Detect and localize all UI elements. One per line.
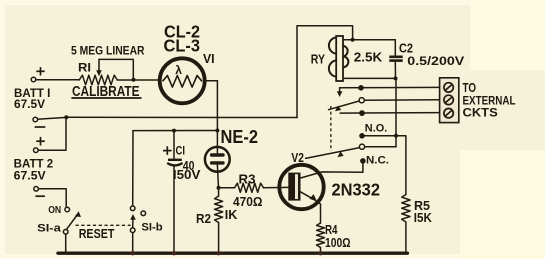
svg-text:ON: ON [48, 204, 61, 216]
svg-text:NE-2: NE-2 [221, 127, 259, 147]
svg-text:VI: VI [203, 52, 215, 66]
svg-text:CL-3: CL-3 [164, 36, 201, 56]
svg-text:SI-b: SI-b [141, 222, 162, 234]
svg-text:67.5V: 67.5V [14, 99, 45, 111]
svg-text:λ: λ [175, 63, 182, 77]
svg-text:RESET: RESET [79, 226, 115, 241]
svg-text:5 MEG LINEAR: 5 MEG LINEAR [71, 45, 145, 58]
svg-text:RY: RY [311, 53, 326, 67]
svg-text:0.5/200V: 0.5/200V [407, 54, 464, 68]
svg-text:CI: CI [176, 146, 186, 158]
svg-text:IK: IK [225, 207, 238, 222]
svg-text:R2: R2 [196, 211, 211, 226]
svg-text:I5K: I5K [414, 211, 432, 225]
svg-text:2.5K: 2.5K [354, 50, 383, 65]
svg-text:BATT 2: BATT 2 [14, 158, 54, 170]
svg-text:100Ω: 100Ω [325, 235, 351, 250]
svg-text:I50V: I50V [173, 168, 201, 182]
svg-text:V2: V2 [291, 150, 304, 165]
svg-text:470Ω: 470Ω [233, 194, 263, 209]
svg-text:N.O.: N.O. [365, 122, 388, 134]
svg-text:CKTS: CKTS [463, 106, 498, 120]
svg-text:SI-a: SI-a [37, 223, 62, 235]
svg-text:N.C.: N.C. [366, 154, 389, 166]
svg-text:67.5V: 67.5V [14, 171, 46, 183]
svg-text:RI: RI [78, 63, 91, 75]
svg-text:2N332: 2N332 [332, 179, 381, 199]
svg-text:R3: R3 [239, 171, 256, 186]
